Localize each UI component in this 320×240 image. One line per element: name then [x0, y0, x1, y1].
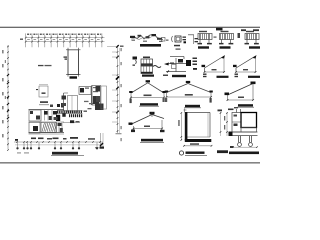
- sheet top border: [0, 26, 260, 28]
- plan bottom dimension line 2: [15, 144, 103, 146]
- J-1 outline: [186, 112, 210, 114]
- door symbols above rooms: [50, 105, 53, 108]
- slope C caption: [238, 104, 253, 106]
- stairwell corner ticks: [66, 49, 81, 51]
- plan left dimension line: [7, 45, 9, 149]
- window bead strip row 1: [57, 111, 58, 114]
- bottom dim right end: [100, 133, 102, 148]
- table caption: [142, 75, 154, 77]
- 2-2 top stub column: [236, 109, 238, 113]
- node caption: [172, 75, 186, 77]
- 2-2 bottom dimension: [233, 146, 257, 148]
- 2-2 posts and circles: [238, 136, 240, 143]
- column section detail: [171, 36, 174, 42]
- portal frame at 197: [199, 31, 207, 32]
- frame2 extra top label: [216, 28, 223, 31]
- plan bottom wall: [29, 132, 65, 134]
- beam caption: [140, 44, 161, 47]
- room name text: [38, 65, 44, 66]
- dark blob left of beads: [56, 115, 60, 121]
- slope D caption: [141, 139, 163, 142]
- left room block upper: [29, 110, 41, 121]
- mid plan walls: [63, 93, 65, 111]
- right dim top connector: [107, 46, 118, 48]
- left room block lower: [29, 122, 40, 133]
- small room rect upper-left: [39, 86, 48, 97]
- partition lines: [56, 122, 58, 132]
- mono slope truss at 204.5: [205, 71, 225, 73]
- slope diagram D: [131, 115, 153, 125]
- portal frame at 218.5: [221, 31, 229, 32]
- window bead strip row 2: [69, 114, 70, 117]
- stirrup table: [141, 59, 153, 66]
- stairwell bottom label: [70, 76, 78, 78]
- gable caption: [185, 105, 200, 107]
- left question mark figure: [133, 57, 138, 60]
- plan right dimension text: [121, 48, 122, 51]
- upper wall line: [29, 109, 65, 111]
- plan right dimension ticks: [117, 51, 119, 53]
- gable B lower-right text: [210, 98, 212, 103]
- plan left dimension text: [2, 50, 3, 53]
- tilde connector: [153, 66, 161, 68]
- 2-2 caption: [217, 150, 228, 153]
- plan top dimension text: [27, 34, 29, 35]
- frame3 top labels: [241, 29, 246, 31]
- plan caption: [52, 152, 78, 155]
- gable truss 166.5-211: [167, 84, 189, 93]
- J-1 caption: [179, 151, 183, 155]
- between-frame marks: [214, 37, 217, 38]
- gable truss 131-164: [131, 83, 148, 93]
- plan bottom grid stubs and bubbles: [17, 142, 19, 147]
- node detail top bar: [170, 56, 184, 58]
- plan bottom dimension text: [15, 139, 18, 141]
- 2-2 left dimension: [226, 113, 228, 137]
- 2-2 main box: [232, 113, 257, 133]
- plan bottom dimension ticks: [16, 141, 18, 143]
- 2-2 outer left dimension: [220, 112, 222, 136]
- room cells verticals: [40, 110, 42, 121]
- plan right dimension line: [117, 45, 119, 133]
- 2-2 base band: [229, 131, 258, 133]
- plan right dimension extension lines: [112, 51, 118, 53]
- top-middle room cluster: [79, 87, 91, 95]
- gable A lower-left text: [130, 99, 132, 104]
- portal frame at 244: [246, 31, 254, 32]
- plan column grid stubs: [25, 33, 27, 47]
- left lower annotation: [17, 152, 21, 153]
- node detail base: [166, 71, 186, 73]
- slope diagram C: [228, 84, 254, 96]
- below corridor marks: [63, 122, 80, 124]
- gable caption: [140, 103, 158, 105]
- plan bottom dimension line: [14, 141, 103, 143]
- node detail frame: [175, 58, 177, 72]
- plan left dimension ticks: [7, 46, 9, 48]
- sheet bottom border: [0, 162, 260, 164]
- mid wall line: [29, 121, 65, 123]
- stair diagonal hatch: [41, 122, 56, 132]
- node detail left arrow: [164, 63, 169, 66]
- right of column marks: [188, 34, 194, 36]
- J-1 bottom dimension: [184, 145, 212, 147]
- left-of-dim mark: [20, 39, 23, 40]
- room label above: [40, 101, 48, 103]
- plan top dimension ticks: [25, 37, 27, 39]
- small text right of beads: [84, 111, 88, 112]
- J-1 left dimension: [180, 113, 182, 140]
- node detail dark square: [186, 60, 191, 66]
- 2-2 dark cell: [241, 113, 257, 128]
- plan top dimension lines: [25, 37, 105, 39]
- stairwell left label: [64, 57, 68, 58]
- stairwell rectangle: [68, 50, 79, 75]
- beam elevation squiggle: [130, 35, 163, 40]
- mono slope truss at 236: [236, 71, 256, 73]
- right room cluster: [96, 86, 101, 92]
- dark cluster right of cells: [53, 111, 57, 115]
